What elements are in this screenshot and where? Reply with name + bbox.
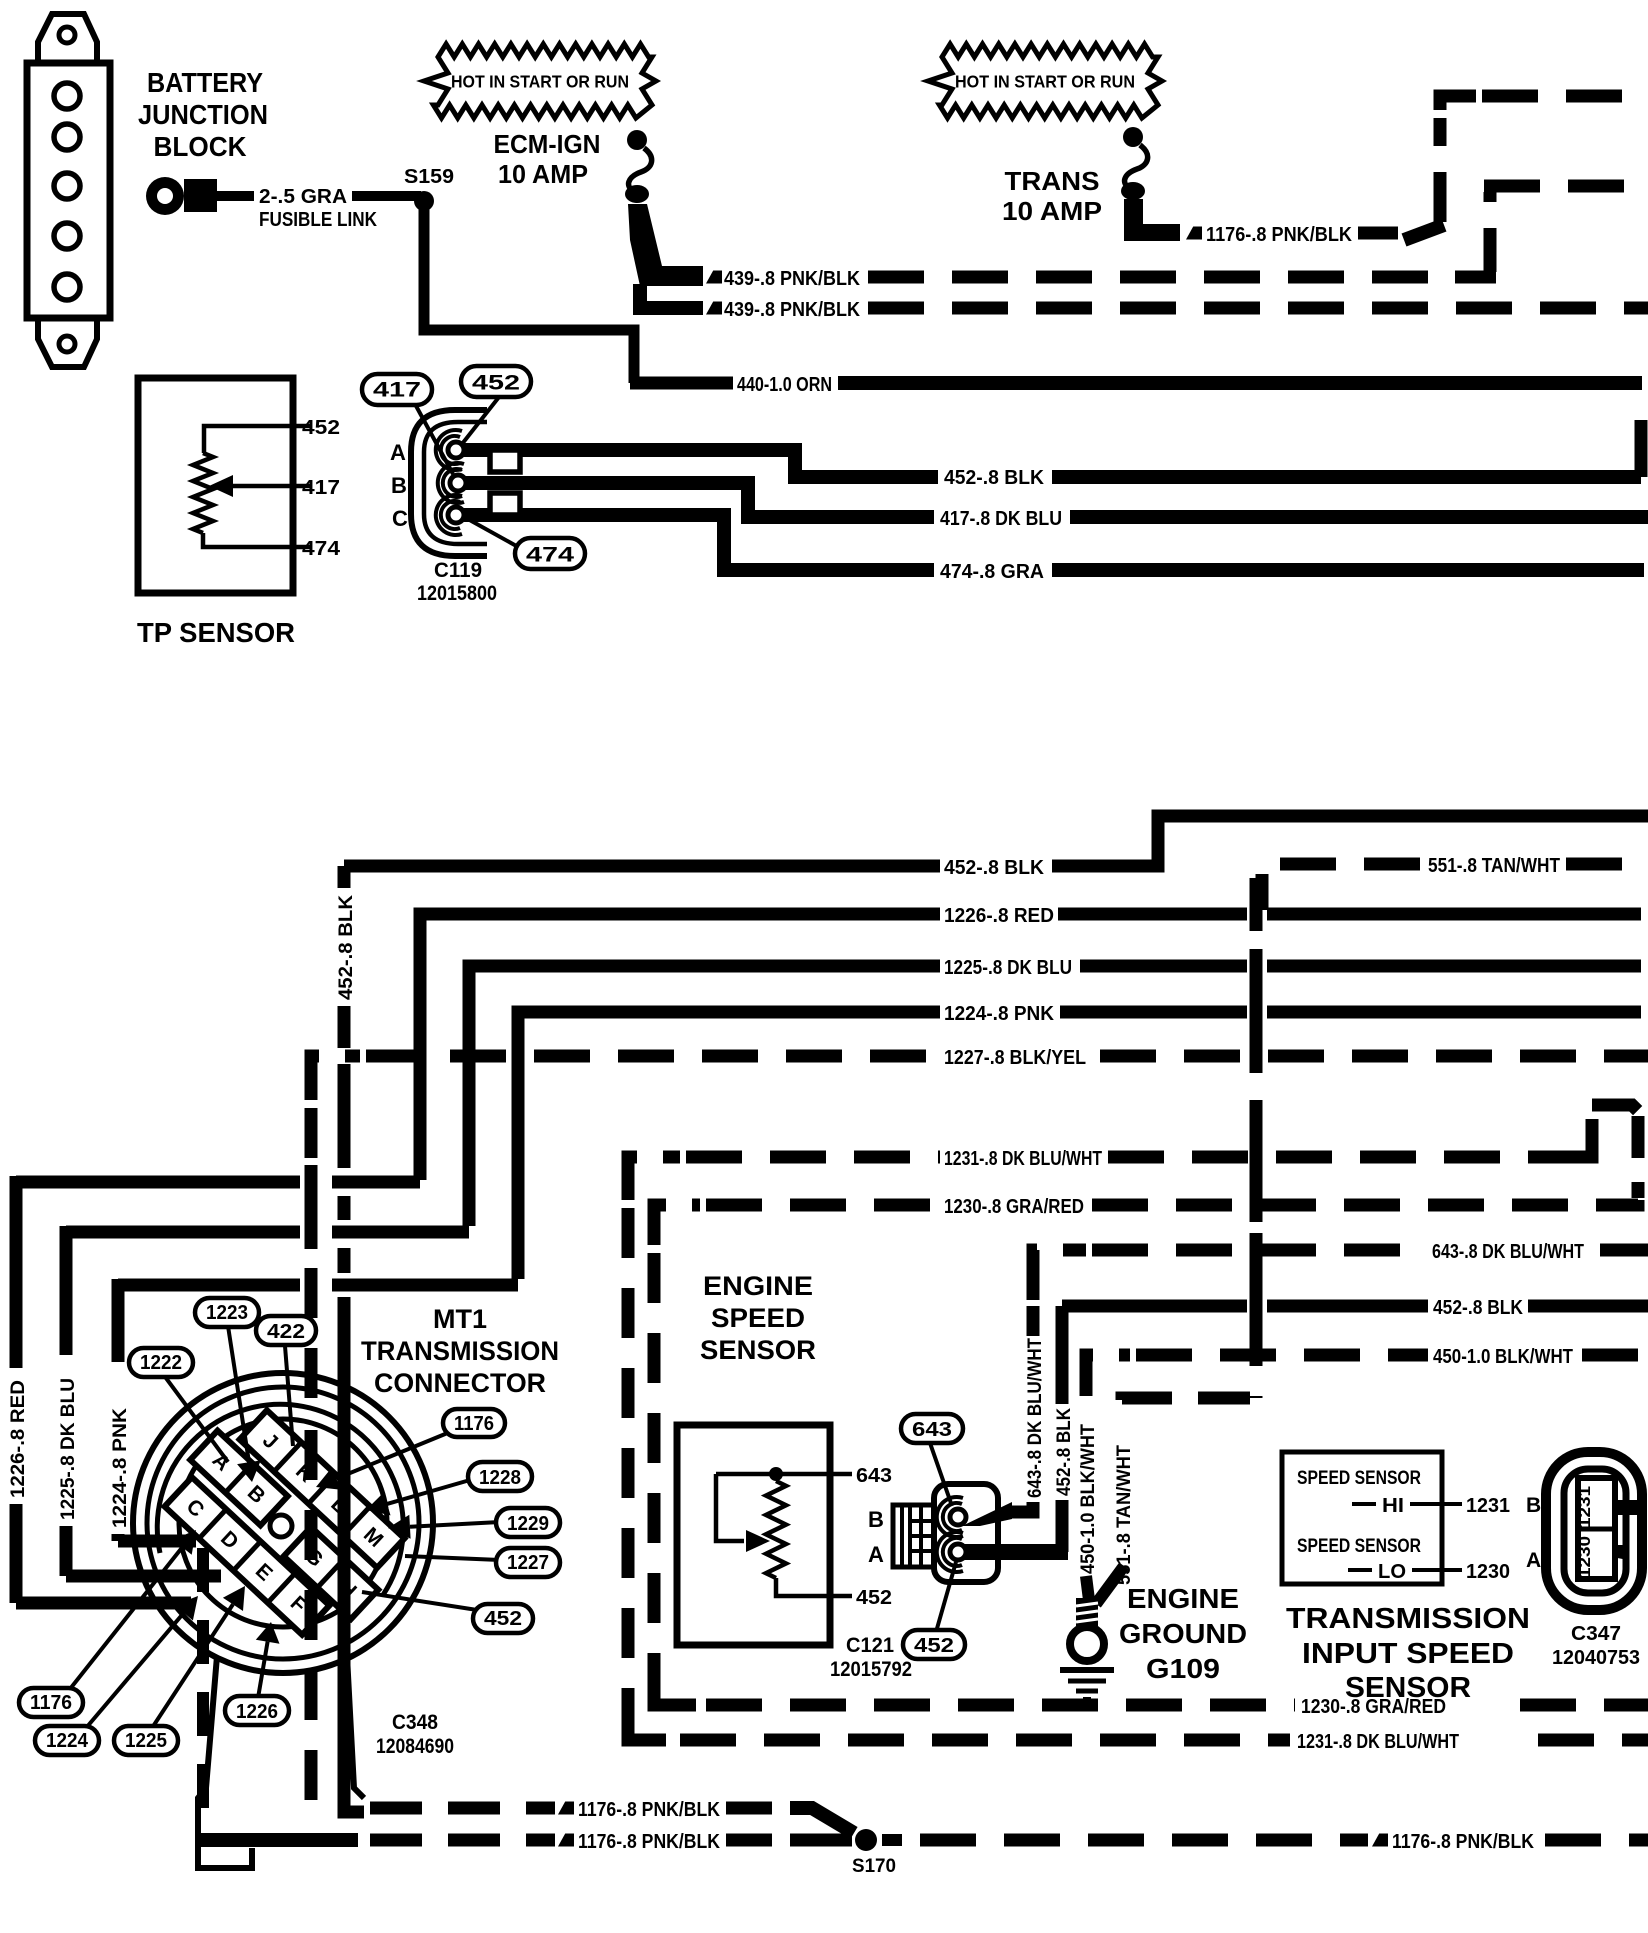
svg-text:452-.8 BLK: 452-.8 BLK	[336, 895, 357, 1000]
svg-text:1224-.8 PNK: 1224-.8 PNK	[110, 1408, 131, 1528]
svg-text:TP SENSOR: TP SENSOR	[137, 617, 295, 648]
svg-text:TRANSMISSION: TRANSMISSION	[1286, 1603, 1530, 1635]
wire: S159 to 440 ORN	[424, 205, 634, 383]
svg-text:HI: HI	[1382, 1495, 1404, 1517]
pin label 1228 (pin L)	[387, 1480, 470, 1504]
svg-text:452: 452	[484, 1608, 522, 1630]
svg-text:B.: B.	[391, 473, 413, 498]
svg-text:A: A	[1526, 1549, 1541, 1572]
svg-text:1176-.8 PNK/BLK: 1176-.8 PNK/BLK	[578, 1831, 720, 1853]
connector C347 12040753	[1546, 1452, 1642, 1610]
svg-text:SPEED SENSOR: SPEED SENSOR	[1297, 1536, 1421, 1557]
svg-text:GROUND: GROUND	[1119, 1618, 1247, 1649]
pin label 1227 (pin G)	[405, 1556, 500, 1560]
svg-text:10 AMP: 10 AMP	[1002, 196, 1102, 226]
engine speed sensor box	[677, 1425, 830, 1645]
vertical 452-.8 BLK with rotated label	[338, 866, 351, 888]
svg-text:1231: 1231	[1575, 1486, 1594, 1528]
svg-text:ECM-IGN: ECM-IGN	[494, 129, 601, 159]
dashes: 439 upper to right, up at x=1490, off right edge	[868, 271, 1452, 284]
pin label 474 (C119 C)	[466, 518, 520, 548]
engine ground G109 ring terminal	[1086, 1576, 1089, 1600]
pin label 1224	[86, 1613, 184, 1728]
svg-text:452-.8 BLK: 452-.8 BLK	[1433, 1297, 1523, 1319]
wire 551-.8 TAN/WHT (dashed, upper right)	[1262, 864, 1420, 910]
1176 dashed vertical (inside bell)	[197, 1548, 209, 1826]
wire 1224-.8 PNK (row)	[518, 1012, 940, 1279]
dashes: 439 lower to right edge	[868, 302, 1648, 315]
svg-text:1225: 1225	[125, 1730, 167, 1752]
svg-text:1230: 1230	[1575, 1536, 1594, 1578]
svg-text:1231: 1231	[1466, 1495, 1510, 1517]
splice S159	[414, 191, 434, 211]
pin label 417 (C119 B)	[415, 404, 453, 474]
pins A,B,C of C119	[441, 436, 460, 464]
potentiometer in TP sensor	[204, 426, 311, 453]
C347 pin tabs	[1611, 1500, 1643, 1515]
svg-text:1224: 1224	[46, 1730, 89, 1752]
splice S170	[855, 1829, 877, 1851]
1231 right U-turn	[1580, 1112, 1592, 1157]
wire 439-.8 PNK/BLK (upper)	[640, 284, 703, 308]
svg-text:452-.8 BLK: 452-.8 BLK	[944, 467, 1045, 489]
pins B,A of C121	[943, 1503, 962, 1531]
connector C121 12015792	[893, 1505, 936, 1567]
wire 1227 dashed vertical through MT1	[305, 1430, 318, 1810]
svg-text:1231-.8 DK BLU/WHT: 1231-.8 DK BLU/WHT	[944, 1148, 1102, 1170]
svg-text:1176-.8 PNK/BLK: 1176-.8 PNK/BLK	[1392, 1831, 1534, 1853]
wire label: 440-1.0 ORN	[630, 377, 733, 390]
svg-text:417: 417	[373, 379, 421, 402]
ground symbol	[1060, 1667, 1114, 1673]
svg-text:1231-.8 DK BLU/WHT: 1231-.8 DK BLU/WHT	[1297, 1731, 1459, 1753]
svg-text:1230-.8 GRA/RED: 1230-.8 GRA/RED	[944, 1196, 1084, 1218]
C119 keyway squares	[490, 450, 520, 472]
svg-text:1223: 1223	[206, 1302, 248, 1324]
pin label 1176 (pin C area)	[66, 1547, 182, 1694]
TP sensor box	[138, 378, 293, 593]
svg-text:452: 452	[914, 1635, 954, 1657]
svg-text:SPEED SENSOR: SPEED SENSOR	[1297, 1468, 1421, 1489]
pin label 1225	[152, 1604, 233, 1728]
svg-text:551-.8 TAN/WHT: 551-.8 TAN/WHT	[1114, 1445, 1135, 1585]
svg-text:643-.8 DK BLU/WHT: 643-.8 DK BLU/WHT	[1025, 1338, 1046, 1498]
wire 1176-.8 PNK/BLK (row 2 from MT1 bell)	[197, 1833, 358, 1847]
svg-text:643: 643	[856, 1465, 892, 1487]
wire 1231-.8 DK BLU/WHT (dashed row)	[628, 1157, 680, 1200]
svg-text:417: 417	[302, 477, 340, 499]
svg-text:1225-.8 DK BLU: 1225-.8 DK BLU	[944, 957, 1072, 979]
svg-text:1226-.8 RED: 1226-.8 RED	[8, 1380, 29, 1498]
svg-text:439-.8 PNK/BLK: 439-.8 PNK/BLK	[724, 299, 860, 321]
MT1 bell housing	[198, 1656, 252, 1868]
svg-text:1176: 1176	[454, 1413, 494, 1435]
svg-text:2-.5 GRA: 2-.5 GRA	[259, 186, 347, 208]
wire 452-.8 BLK (middle row)	[344, 860, 940, 873]
svg-text:FUSIBLE LINK: FUSIBLE LINK	[259, 209, 377, 231]
svg-text:450-1.0 BLK/WHT: 450-1.0 BLK/WHT	[1433, 1346, 1573, 1368]
speed sensor block (HI/LO)	[1282, 1452, 1442, 1584]
pin label 643 (C121 B)	[930, 1443, 952, 1506]
svg-text:1226: 1226	[236, 1701, 278, 1723]
1230 vertical dashed (inner)	[648, 1253, 661, 1700]
wiper arrow 417	[209, 475, 233, 497]
svg-text:HOT IN START OR RUN: HOT IN START OR RUN	[955, 71, 1135, 91]
svg-text:452: 452	[856, 1587, 892, 1609]
svg-text:C121: C121	[846, 1634, 894, 1657]
wire 1176-.8 PNK/BLK (row 1 from MT1)	[370, 1802, 555, 1815]
svg-text:1176-.8 PNK/BLK: 1176-.8 PNK/BLK	[578, 1799, 720, 1821]
svg-text:452: 452	[472, 372, 520, 395]
svg-text:HOT IN START OR RUN: HOT IN START OR RUN	[451, 71, 629, 91]
svg-text:LO: LO	[1378, 1561, 1406, 1583]
pin label 1222	[163, 1374, 228, 1462]
svg-text:A: A	[390, 440, 406, 465]
svg-text:1224-.8 PNK: 1224-.8 PNK	[944, 1003, 1055, 1025]
svg-text:SENSOR: SENSOR	[700, 1335, 816, 1365]
svg-text:12015800: 12015800	[417, 582, 497, 605]
svg-text:G109: G109	[1146, 1653, 1220, 1684]
pin label 452 (C121 A)	[936, 1562, 956, 1632]
wire 450-1.0 BLK/WHT (dashed row)	[1086, 1355, 1130, 1396]
pin label 1226 (pin F)	[258, 1642, 268, 1698]
svg-text:1226-.8 RED: 1226-.8 RED	[944, 905, 1054, 927]
power tag: HOT IN START OR RUN (left)	[424, 44, 656, 118]
svg-text:551-.8 TAN/WHT: 551-.8 TAN/WHT	[1428, 855, 1560, 877]
svg-text:INPUT SPEED: INPUT SPEED	[1302, 1638, 1514, 1670]
svg-text:1222: 1222	[140, 1352, 182, 1374]
power tag: HOT IN START OR RUN (right)	[928, 44, 1162, 118]
svg-text:1230: 1230	[1466, 1561, 1510, 1583]
svg-text:474: 474	[302, 538, 341, 560]
ring terminal (battery feed)	[146, 177, 184, 215]
svg-text:C: C	[392, 506, 408, 531]
pin label 1176 (pin K)	[336, 1432, 450, 1479]
sensor coil symbol	[716, 1472, 852, 1477]
wire 1227-.8 BLK/YEL (dashed row)	[311, 1056, 360, 1100]
wire 1230-.8 GRA/RED (dashed row)	[654, 1205, 700, 1245]
battery junction block	[27, 14, 110, 367]
svg-text:MT1: MT1	[433, 1304, 487, 1334]
svg-text:474-.8 GRA: 474-.8 GRA	[940, 561, 1044, 583]
svg-text:CONNECTOR: CONNECTOR	[374, 1368, 546, 1398]
svg-text:1225-.8 DK BLU: 1225-.8 DK BLU	[58, 1378, 79, 1520]
pin label 452 (pin H)	[362, 1592, 490, 1612]
MT1 pin row A,B	[190, 1431, 287, 1526]
wire 452 solid vertical through MT1	[338, 1430, 351, 1803]
wire 452-.8 BLK (right row, solid)	[1062, 1300, 1247, 1313]
MT1 pin row C,D,E,F	[165, 1477, 330, 1634]
svg-text:1228: 1228	[479, 1467, 521, 1489]
svg-text:B: B	[1526, 1494, 1541, 1517]
wire: 2-.5 GRA fusible link	[216, 191, 254, 201]
svg-text:1227: 1227	[507, 1552, 549, 1574]
pin label 1229 (pin M)	[410, 1522, 500, 1527]
svg-text:439-.8 PNK/BLK: 439-.8 PNK/BLK	[724, 268, 860, 290]
crossing ticks on 551 vertical	[1250, 897, 1263, 931]
svg-text:643-.8 DK BLU/WHT: 643-.8 DK BLU/WHT	[1432, 1241, 1584, 1263]
svg-text:B: B	[868, 1507, 884, 1532]
svg-text:ENGINE: ENGINE	[1127, 1583, 1239, 1614]
wire 1226-.8 RED (row)	[420, 914, 940, 1180]
wire 643-.8 DK BLU/WHT (dashed row)	[1033, 1250, 1086, 1300]
svg-text:SPEED: SPEED	[711, 1303, 805, 1333]
643 vertical dashed with rotated label	[1027, 1306, 1040, 1336]
svg-text:440-1.0 ORN: 440-1.0 ORN	[737, 374, 832, 396]
MT1 pin row J,K,L,M	[240, 1410, 405, 1567]
wire 1225-.8 DK BLU (row)	[469, 966, 940, 1226]
svg-text:474: 474	[526, 544, 574, 567]
wire 1176-.8 PNK/BLK (from TRANS fuse)	[1186, 227, 1202, 240]
svg-text:12015792: 12015792	[830, 1658, 912, 1681]
svg-text:JUNCTION: JUNCTION	[138, 99, 268, 130]
svg-text:C348: C348	[392, 1711, 438, 1734]
svg-text:BLOCK: BLOCK	[154, 131, 247, 162]
svg-text:12040753: 12040753	[1552, 1647, 1640, 1669]
pin label 452 (C119 A)	[462, 397, 499, 444]
svg-text:S159: S159	[404, 166, 454, 188]
fuse ECM-IGN 10A	[627, 130, 647, 150]
svg-text:450-1.0 BLK/WHT: 450-1.0 BLK/WHT	[1078, 1424, 1099, 1574]
svg-text:TRANS: TRANS	[1005, 166, 1100, 196]
svg-text:1176-.8 PNK/BLK: 1176-.8 PNK/BLK	[1206, 224, 1353, 246]
svg-text:643: 643	[912, 1419, 952, 1441]
svg-text:10 AMP: 10 AMP	[498, 159, 588, 189]
fuse TRANS 10A	[1123, 127, 1143, 147]
svg-text:TRANSMISSION: TRANSMISSION	[361, 1336, 559, 1366]
svg-text:452-.8 BLK: 452-.8 BLK	[1054, 1408, 1075, 1496]
svg-text:417-.8 DK BLU: 417-.8 DK BLU	[940, 508, 1062, 530]
svg-text:C347: C347	[1571, 1623, 1621, 1645]
connector C119 12015800	[411, 410, 487, 556]
svg-text:ENGINE: ENGINE	[703, 1271, 813, 1301]
svg-text:BATTERY: BATTERY	[147, 67, 263, 98]
wedge pin B to 643	[962, 1502, 1012, 1526]
MT1 pin row G,H	[284, 1527, 379, 1619]
svg-text:S170: S170	[852, 1856, 896, 1877]
connector C348 MT1 rings	[133, 1373, 433, 1673]
svg-text:C119: C119	[434, 559, 482, 582]
wires C119 A/B/C out	[462, 450, 938, 477]
svg-text:1229: 1229	[507, 1513, 549, 1535]
wire pin A to 452 vertical	[960, 1544, 1068, 1560]
svg-text:12084690: 12084690	[376, 1735, 454, 1758]
1226 RED down-left and down with rotated label	[332, 1176, 420, 1189]
svg-text:422: 422	[267, 1321, 305, 1343]
svg-text:1176: 1176	[30, 1692, 72, 1714]
svg-text:452: 452	[302, 417, 340, 439]
svg-text:A: A	[868, 1542, 884, 1567]
pin label 1223	[228, 1326, 249, 1462]
452 vertical right (solid) with rotated label	[1056, 1306, 1069, 1404]
1231 vertical dashed (engine sensor box left)	[622, 1208, 635, 1730]
svg-text:SENSOR: SENSOR	[1345, 1672, 1471, 1704]
pin label 422	[285, 1346, 293, 1446]
svg-text:452-.8 BLK: 452-.8 BLK	[944, 857, 1045, 879]
551 vertical dashed down to y=1398	[1250, 878, 1263, 1398]
1227 vertical dashed (upper part)	[305, 1108, 318, 1420]
svg-text:1227-.8 BLK/YEL: 1227-.8 BLK/YEL	[944, 1047, 1086, 1069]
